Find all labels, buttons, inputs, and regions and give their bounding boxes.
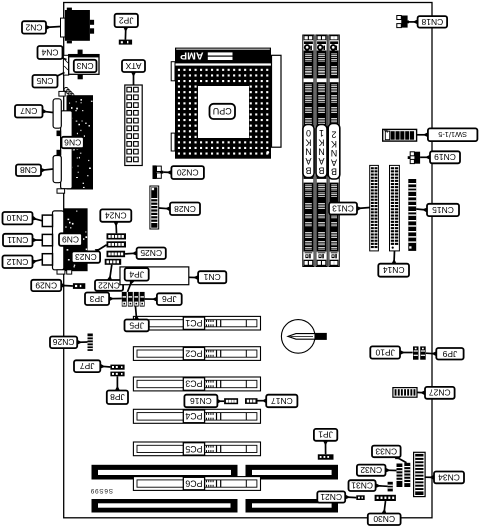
- connector CN3 PS/2 stack: [63, 50, 99, 80]
- label CN20: [163, 170, 171, 175]
- svg-text:CN20: CN20: [177, 167, 199, 177]
- audio jack CN11: [42, 234, 52, 245]
- svg-text:BANK1: BANK1: [318, 128, 325, 175]
- header CN22: [105, 259, 122, 265]
- svg-text:CN12: CN12: [6, 257, 28, 267]
- connector CN7 serial port: [53, 99, 61, 128]
- svg-text:CPU: CPU: [213, 106, 232, 116]
- CPU socket left tabs: [171, 62, 175, 151]
- svg-text:CN17: CN17: [271, 396, 293, 406]
- svg-text:CN7: CN7: [20, 106, 37, 116]
- svg-text:CN25: CN25: [140, 248, 162, 258]
- header CN28: [150, 186, 159, 229]
- label CN23: [95, 245, 107, 254]
- svg-text:JP9: JP9: [442, 349, 457, 359]
- label CN29: [61, 283, 73, 288]
- header CN15 (strip C): [408, 179, 416, 251]
- svg-text:PC6: PC6: [185, 478, 202, 488]
- jumper JP2: [119, 40, 132, 45]
- svg-text:JP6: JP6: [162, 294, 177, 304]
- header CN17: [245, 398, 258, 404]
- svg-text:BANK2: BANK2: [331, 130, 338, 177]
- jumper JP8: [110, 372, 124, 377]
- jumper block JP3/JP4/JP5/JP6: [122, 292, 145, 307]
- label CN5: [54, 73, 65, 80]
- svg-text:S6S99: S6S99: [90, 487, 113, 494]
- label JP3: [109, 296, 122, 301]
- DIMM socket BANK0: [303, 35, 314, 267]
- tab at board edge: [59, 91, 65, 96]
- label CN25: [125, 251, 137, 256]
- svg-text:CN27: CN27: [429, 388, 451, 398]
- header CN14 (strip B): [390, 165, 400, 251]
- label CN3: [74, 60, 97, 72]
- svg-text:CN18: CN18: [421, 17, 443, 27]
- screw posts: [57, 131, 62, 156]
- label JP6: [145, 297, 157, 302]
- label CN21: [345, 495, 356, 500]
- connector CN8 serial port: [53, 156, 61, 183]
- label CPU: [210, 104, 236, 119]
- svg-text:CN9: CN9: [62, 235, 79, 245]
- svg-text:CN26: CN26: [52, 337, 74, 347]
- label CN7: [42, 109, 53, 114]
- label CN8: [41, 168, 53, 173]
- header CN34: [414, 452, 426, 496]
- label CN9: [59, 233, 82, 246]
- label BANK0: [303, 125, 314, 178]
- svg-text:ATX: ATX: [125, 61, 141, 71]
- DIMM socket BANK1: [316, 35, 327, 267]
- label CN22: [107, 265, 112, 281]
- header CN26: [88, 334, 93, 351]
- svg-text:JP1: JP1: [318, 430, 333, 440]
- label CN2: [46, 25, 61, 30]
- svg-text:SW1/1-5: SW1/1-5: [438, 130, 467, 139]
- label CN30: [382, 501, 387, 514]
- svg-text:JP7: JP7: [80, 361, 95, 371]
- svg-text:JP2: JP2: [119, 15, 134, 25]
- jumper CN21: [356, 495, 364, 500]
- tab below parallel block: [57, 189, 65, 193]
- svg-text:CN30: CN30: [373, 514, 395, 524]
- svg-text:CN16: CN16: [190, 396, 212, 406]
- ISA slot bar 1: [92, 465, 339, 480]
- label ATX: [131, 72, 136, 85]
- label CN28: [159, 206, 171, 211]
- svg-text:PC1: PC1: [185, 318, 202, 328]
- svg-text:CN4: CN4: [41, 47, 58, 57]
- label CN15: [416, 208, 427, 213]
- label CN27: [417, 390, 425, 395]
- connector CN1 box: [120, 267, 189, 285]
- connector CN2 keyboard DIN: [61, 8, 95, 44]
- label CN4: [58, 55, 66, 60]
- header CN31: [388, 482, 393, 492]
- ISA slot bar 2: [92, 499, 339, 513]
- CPU socket lever strip: [272, 55, 282, 147]
- label BANK1: [316, 125, 327, 178]
- svg-text:CN22: CN22: [98, 280, 120, 290]
- motherboard outline: [64, 3, 432, 518]
- svg-text:JP10: JP10: [375, 347, 395, 357]
- label CN13: [357, 206, 370, 211]
- header CN27: [393, 388, 417, 398]
- svg-text:PC3: PC3: [185, 379, 202, 389]
- label CN1: [189, 275, 198, 280]
- label CN24: [114, 222, 119, 234]
- connector block CN6/CN7/CN8 serial-parallel: [67, 95, 94, 189]
- label JP4: [128, 280, 135, 292]
- svg-text:JP8: JP8: [110, 392, 125, 402]
- jumper CN29: [73, 283, 85, 289]
- svg-text:CN6: CN6: [64, 137, 81, 147]
- inductor coil at board edge: [64, 88, 74, 98]
- fan connector CN20: [153, 165, 164, 179]
- expansion slot PC2: [133, 347, 260, 361]
- svg-text:CN31: CN31: [351, 481, 373, 491]
- DIP switch SW1: [383, 129, 417, 141]
- label CN10: [32, 216, 42, 221]
- label CN12: [32, 259, 42, 264]
- svg-text:PC2: PC2: [185, 349, 202, 359]
- connector CN9 audio block: [64, 208, 88, 271]
- svg-text:CN23: CN23: [75, 252, 97, 262]
- svg-text:PC5: PC5: [185, 444, 202, 454]
- expansion slot PC5: [133, 442, 260, 456]
- header CN32 strip: [397, 464, 403, 488]
- label CN31: [376, 483, 388, 488]
- expansion slot PC6: [133, 477, 260, 491]
- fan connector CN18: [397, 16, 409, 28]
- svg-text:CN21: CN21: [320, 492, 342, 502]
- label SW1/1-5: [417, 132, 428, 137]
- label CN17: [258, 398, 267, 403]
- connector ATX power: [125, 85, 142, 166]
- header CN16: [224, 398, 238, 404]
- svg-text:CN8: CN8: [20, 165, 37, 175]
- header CN30: [375, 495, 396, 501]
- label CN32: [385, 468, 396, 473]
- svg-text:JP5: JP5: [129, 320, 144, 330]
- label JP7: [100, 364, 110, 369]
- svg-text:JP4: JP4: [129, 269, 144, 279]
- tabs below audio block: [57, 270, 72, 274]
- header CN33 strip: [404, 463, 410, 487]
- svg-text:PC4: PC4: [185, 411, 202, 421]
- svg-text:CN29: CN29: [35, 280, 57, 290]
- expansion slot PC3: [133, 377, 260, 391]
- header CN13 (strip A): [370, 165, 379, 251]
- D-sub flange strip: [61, 111, 73, 189]
- svg-text:JP3: JP3: [89, 294, 104, 304]
- svg-text:CN13: CN13: [332, 203, 354, 213]
- svg-text:CN34: CN34: [438, 472, 460, 482]
- label JP9: [426, 351, 437, 356]
- svg-text:CN11: CN11: [7, 235, 28, 245]
- svg-text:CN10: CN10: [6, 213, 28, 223]
- label CN26: [77, 340, 87, 345]
- label CN6: [62, 137, 84, 148]
- label CN19: [420, 155, 430, 160]
- svg-text:AMP: AMP: [180, 49, 203, 61]
- jumper block JP9/JP10: [413, 346, 426, 359]
- fan connector CN19: [408, 152, 420, 164]
- svg-text:CN14: CN14: [383, 265, 405, 275]
- svg-text:CN5: CN5: [36, 76, 53, 86]
- header CN23: [107, 241, 127, 247]
- svg-text:CN3: CN3: [76, 61, 93, 71]
- svg-text:CN32: CN32: [360, 465, 382, 475]
- CPU socket U1 (AMP): [175, 48, 271, 159]
- svg-text:CN28: CN28: [174, 204, 196, 214]
- svg-text:CN19: CN19: [434, 152, 456, 162]
- label CN14: [392, 251, 397, 264]
- label CN33: [395, 455, 407, 463]
- jumper JP7: [110, 365, 124, 370]
- battery BT1: [281, 320, 326, 354]
- label CN11: [33, 238, 43, 243]
- svg-text:CN2: CN2: [25, 22, 42, 32]
- svg-text:CN33: CN33: [375, 446, 397, 456]
- label CN18: [409, 19, 418, 24]
- audio jack CN12: [42, 254, 52, 265]
- header CN24: [107, 233, 127, 239]
- svg-text:BANK0: BANK0: [305, 128, 312, 175]
- svg-text:CN1: CN1: [203, 272, 220, 282]
- audio jack CN10: [42, 215, 52, 226]
- svg-text:CN15: CN15: [432, 205, 454, 215]
- header CN25: [107, 251, 126, 258]
- label JP5: [134, 307, 139, 320]
- label BANK2: [328, 124, 340, 180]
- label CN16: [217, 399, 224, 404]
- label CN34: [425, 475, 434, 480]
- svg-text:CN24: CN24: [105, 211, 127, 221]
- jumper JP1: [318, 454, 334, 459]
- expansion slot PC4: [133, 409, 260, 423]
- label JP10: [400, 350, 413, 355]
- label JP1: [323, 441, 328, 455]
- label JP2: [123, 27, 128, 40]
- label JP8: [115, 376, 120, 390]
- expansion slot PC1: [133, 316, 260, 330]
- DIMM socket BANK2: [329, 35, 339, 267]
